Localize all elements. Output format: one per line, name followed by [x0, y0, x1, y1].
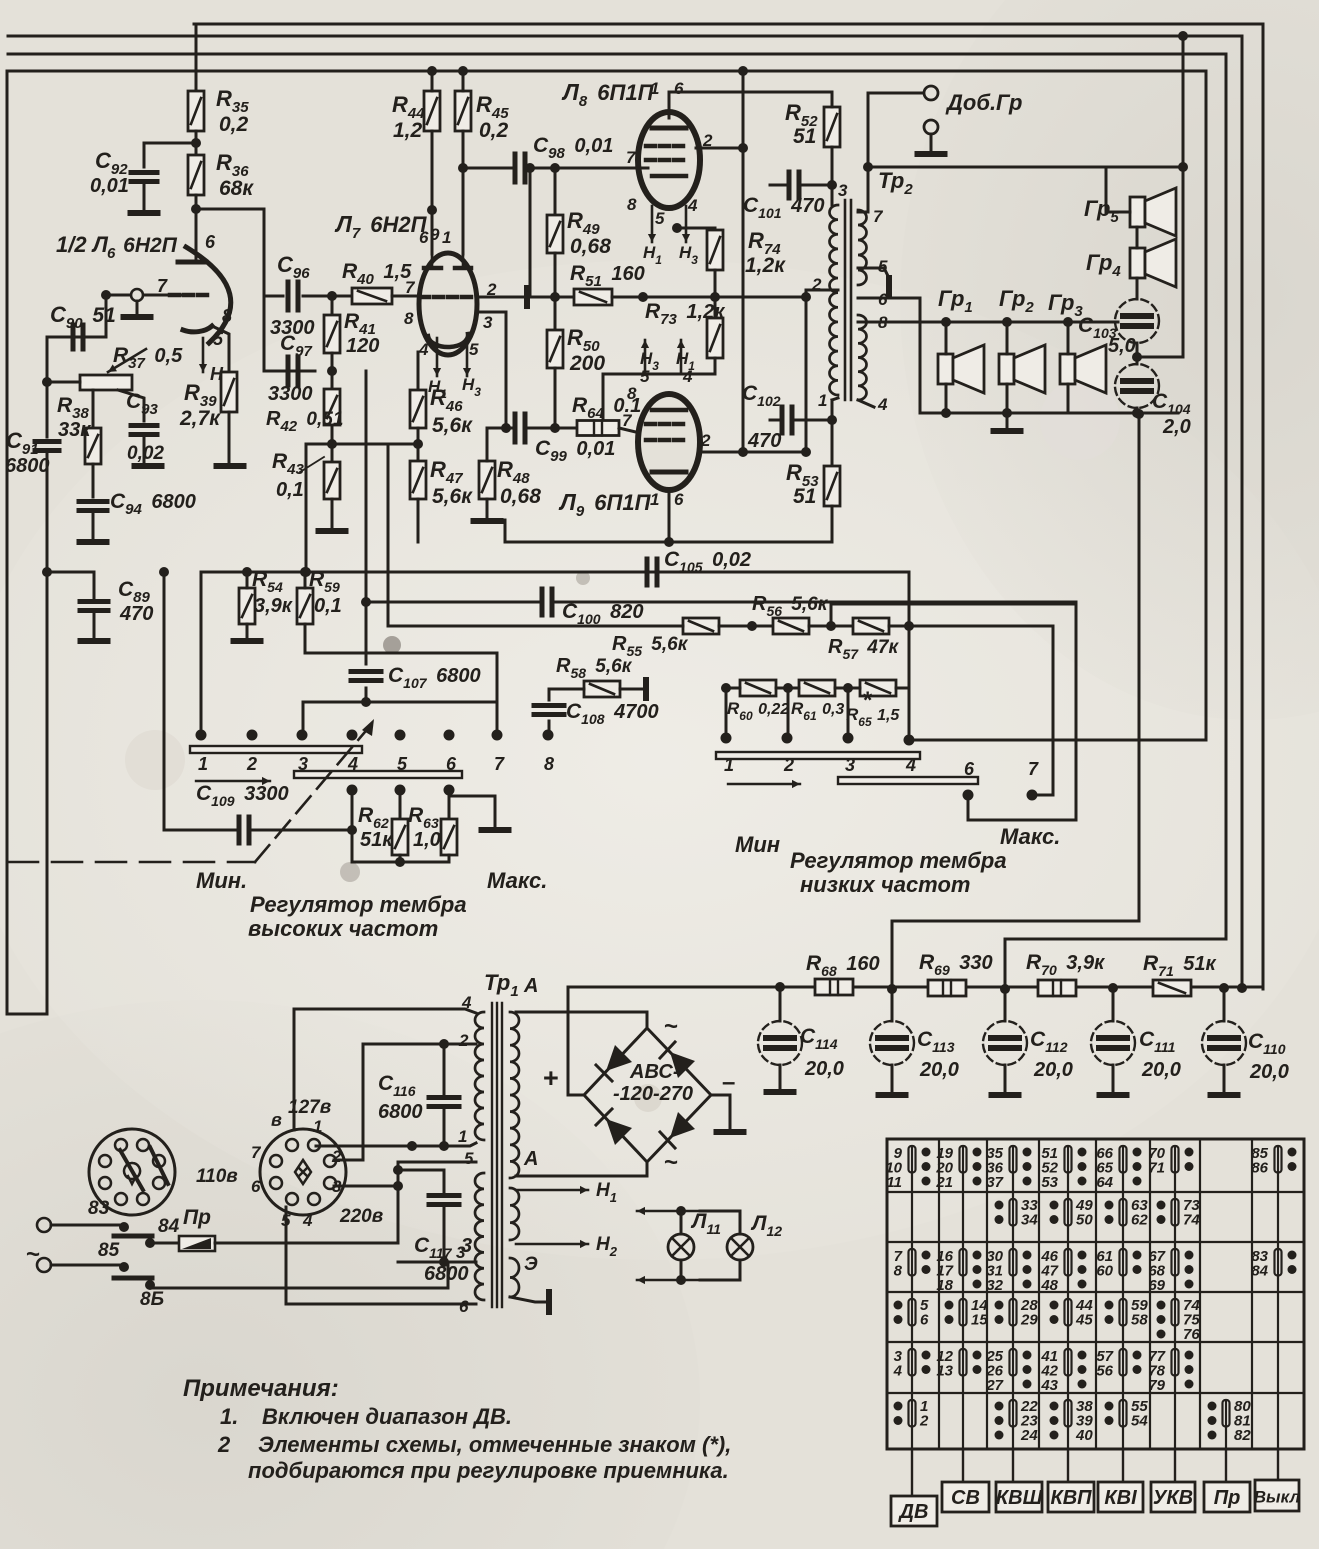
wire Tr2 tap6 to speaker bottom rail [858, 298, 920, 413]
resistor R49 [547, 215, 563, 253]
wire C101 left stub [770, 184, 789, 187]
wire R59 bottom two-level link to contacts 3 and 7 [305, 624, 497, 702]
svg-text:4: 4 [418, 340, 429, 359]
svg-text:1: 1 [650, 79, 659, 98]
resistor R61 [799, 680, 835, 696]
wire R40 to L7 grid [392, 295, 420, 298]
wire bus line 3 [8, 54, 1226, 939]
wire C90 node riser [105, 295, 108, 337]
svg-text:6: 6 [251, 1177, 261, 1196]
svg-text:6: 6 [964, 759, 975, 779]
wire left rail from C90 down [46, 337, 49, 437]
resistor R73 [707, 318, 723, 358]
wire screen supply riser from bus to L9 pin2 [742, 71, 745, 452]
wire R46 top lead [417, 352, 420, 390]
capacitor C94 [79, 502, 107, 511]
svg-text:79: 79 [1148, 1377, 1165, 1394]
resistor R50 [547, 330, 563, 368]
wire tap5 riser [398, 1162, 476, 1243]
tube L6 grid dashes pin 7 [170, 293, 179, 298]
wire contact 6b to ground [449, 796, 495, 826]
unused socket 83 [89, 1129, 175, 1215]
tube U L8 6P1P envelope [638, 112, 700, 208]
svg-text:27: 27 [985, 1377, 1003, 1394]
svg-text:11: 11 [886, 1174, 902, 1191]
svg-text:А: А [523, 975, 538, 997]
terminal circles Dob.Gr [924, 86, 938, 100]
wire C99 line [506, 427, 512, 430]
bass control contacts [721, 733, 732, 744]
switch contacts 25,26,27 [985, 1348, 1031, 1394]
tube L7 anode bars [424, 266, 441, 271]
svg-text:20,0: 20,0 [919, 1059, 959, 1081]
capacitor C110 electrolytic [1223, 988, 1226, 1021]
svg-text:5,0: 5,0 [1108, 335, 1136, 357]
wire R57 right to riser x909 [889, 625, 1053, 628]
wire R52 bottom to C101 node [831, 147, 834, 205]
wire R56 junction riser to y604 loop [831, 604, 1076, 820]
resistor R36 [188, 155, 204, 195]
svg-text:20,0: 20,0 [1249, 1061, 1289, 1083]
wire left riser to contact 1 [200, 572, 203, 735]
resistor R69 [928, 980, 966, 996]
svg-text:120: 120 [346, 335, 379, 357]
wire R49 column [554, 168, 557, 215]
switch 84-85 [51, 1224, 120, 1227]
switch contacts 5,6 [894, 1297, 930, 1329]
treble slider bar 2 [294, 771, 462, 778]
svg-text:КВI: КВI [1104, 1487, 1137, 1509]
capacitor C113 electrolytic [891, 989, 894, 1021]
svg-text:71: 71 [1148, 1160, 1165, 1177]
svg-text:3: 3 [838, 181, 848, 200]
wire bus line 2 [8, 36, 1242, 989]
wire R45 lead down through C98 node to L7 pin 1 [462, 71, 465, 91]
wire R51 line to feedback riser [612, 296, 806, 299]
wire R37 to C93 [118, 390, 144, 421]
wire R36 anode node to C96 column [195, 195, 198, 262]
svg-text:Элементы схемы, отмеченные зна: Элементы схемы, отмеченные знаком (*), [258, 1432, 731, 1457]
svg-text:85: 85 [98, 1240, 120, 1261]
wire bridge plus output riser [568, 987, 584, 1095]
switch contacts 66,65,64 [1096, 1145, 1141, 1191]
wire L8 pin7 input [640, 167, 648, 170]
svg-text:С107 6800: С107 6800 [388, 664, 481, 691]
svg-text:200: 200 [569, 352, 605, 375]
wire R42 node [331, 371, 334, 389]
wire bus line 4 (outer loop via left edge) [7, 71, 1206, 1012]
switch contacts 41,42,43 [1040, 1348, 1086, 1394]
svg-text:58: 58 [1131, 1312, 1148, 1329]
capacitor C107 [351, 672, 381, 681]
resistor R52 [824, 107, 840, 147]
svg-text:470: 470 [119, 603, 153, 625]
pilot lamp L12 [739, 1211, 742, 1234]
svg-text:220в: 220в [339, 1206, 383, 1227]
wire L7 pin3 riser to C99 line [477, 312, 506, 428]
wire R50 bottom to C99 line [554, 368, 557, 428]
switch contacts 73,74 [1157, 1197, 1201, 1229]
svg-text:4: 4 [347, 754, 358, 774]
wire riser x1005 loop [1005, 939, 1226, 989]
pilot lamp L11 [680, 1211, 683, 1234]
ground under lower terminal [930, 134, 933, 150]
tube L9 cathode bar [652, 408, 686, 413]
capacitor C100 [542, 589, 552, 615]
wire tap3 line [398, 1261, 476, 1264]
svg-text:5: 5 [397, 754, 408, 774]
ground bar for winding E [510, 1297, 549, 1302]
svg-text:18: 18 [936, 1277, 953, 1294]
wire contact 4b to R62 R63 bottom rail [347, 785, 358, 796]
svg-text:0,1: 0,1 [314, 595, 342, 617]
transformer Tr1 primary upper [475, 1012, 484, 1140]
capacitor C111 electrolytic [1112, 988, 1115, 1021]
fuse Pr [150, 1242, 179, 1245]
resistor R53 [824, 466, 840, 506]
treble arrow [196, 777, 270, 785]
svg-text:2,7к: 2,7к [179, 407, 221, 430]
svg-text:Э: Э [524, 1254, 538, 1275]
resistor R60 [740, 680, 776, 696]
svg-text:1/2 Л: 1/2 Л [56, 232, 109, 257]
resistor R62 [399, 790, 402, 819]
resistor R38 [85, 428, 101, 464]
heater arrow H2 of L6 [199, 338, 207, 372]
svg-text:3: 3 [298, 754, 308, 774]
ground under C92 [143, 182, 146, 210]
svg-text:0,02: 0,02 [127, 443, 164, 464]
svg-text:6800: 6800 [378, 1101, 423, 1123]
svg-text:0,68: 0,68 [500, 485, 541, 508]
capacitor C102 and wire [806, 419, 832, 422]
capacitor C105 [647, 559, 657, 585]
svg-text:Выкл: Выкл [1254, 1488, 1301, 1507]
switch contacts 61,60 [1096, 1248, 1141, 1280]
capacitor C116 [443, 1044, 446, 1096]
svg-text:4: 4 [687, 196, 698, 215]
treble slider bar 1 [190, 746, 362, 753]
treble control contacts row [196, 730, 207, 741]
svg-text:АВС-: АВС- [629, 1061, 680, 1083]
switch contacts 80,81,82 [1208, 1398, 1252, 1444]
wire riser x909 down to bass line [908, 572, 911, 740]
svg-text:4: 4 [905, 755, 916, 775]
wire R41 column [331, 296, 334, 315]
svg-text:7: 7 [405, 278, 416, 297]
rectifier bridge ABC-120-270 [584, 1028, 711, 1162]
svg-text:Макс.: Макс. [1000, 824, 1060, 849]
switch contacts 85,86 [1251, 1145, 1296, 1177]
capacitor C97 [288, 357, 298, 385]
wire HV top to bridge [516, 1012, 647, 1028]
svg-text:СВ: СВ [951, 1487, 980, 1509]
pilot lamp bottom rail [637, 1276, 700, 1284]
svg-text:высоких частот: высоких частот [248, 916, 438, 941]
capacitor C112 electrolytic [1004, 989, 1007, 1021]
heater arrows H1 H3 of L7 [433, 338, 441, 376]
switch contacts 67,68,69 [1148, 1248, 1193, 1294]
svg-text:Макс.: Макс. [487, 868, 547, 893]
transformer Tr2 secondary winding lower [858, 315, 867, 400]
wire R44 leads [431, 71, 434, 91]
heater arrow H1 from Tr1 [516, 1186, 588, 1194]
svg-text:Пр: Пр [1214, 1487, 1241, 1509]
resistor R39 [221, 372, 237, 412]
svg-text:7: 7 [622, 411, 633, 430]
svg-text:21: 21 [935, 1174, 953, 1191]
wire L8 pin2 screen line [696, 147, 743, 150]
svg-text:43: 43 [1040, 1377, 1058, 1394]
svg-text:–: – [722, 1069, 735, 1096]
svg-text:1.: 1. [220, 1404, 238, 1429]
wire HV bottom to bridge [516, 1162, 647, 1176]
svg-text:Мин.: Мин. [196, 868, 247, 893]
button Выкл [1277, 1449, 1279, 1480]
wire Gr5 branch [1106, 167, 1183, 212]
wire R47 bottom [417, 499, 420, 542]
svg-text:5,6к: 5,6к [432, 414, 473, 437]
switch contacts 74,75,76 [1157, 1297, 1201, 1343]
svg-text:1,0: 1,0 [413, 829, 441, 851]
resistor R43 [324, 462, 340, 499]
button Пр [1225, 1449, 1227, 1482]
svg-text:83: 83 [88, 1198, 110, 1219]
svg-text:110в: 110в [196, 1166, 238, 1187]
svg-text:3: 3 [845, 755, 855, 775]
capacitor C91 in left rail [35, 442, 59, 451]
svg-text:6: 6 [419, 228, 429, 247]
svg-text:53: 53 [1041, 1174, 1058, 1191]
wire feedback riser x1139 from speaker rail [892, 417, 1139, 989]
loudspeaker Gr4 [1130, 239, 1176, 287]
wire fuse to transformer riser [215, 1242, 398, 1245]
transformer Tr2 primary winding [830, 205, 839, 395]
resistor R55 [683, 618, 719, 634]
wire R55 row riser [387, 444, 390, 626]
loudspeaker Gr2 [999, 345, 1045, 393]
resistor R57 [853, 618, 889, 634]
wire Tr2 tap8 speaker top rail [858, 321, 1118, 324]
svg-text:6: 6 [920, 1312, 929, 1329]
svg-text:15: 15 [971, 1312, 988, 1329]
svg-text:Примечания:: Примечания: [183, 1375, 339, 1402]
wire R64 to L9 pin7 [619, 428, 640, 433]
svg-text:8Б: 8Б [140, 1289, 164, 1310]
wire C104 bottom [1136, 408, 1139, 413]
wire R53 bottom to ground line [831, 506, 834, 542]
resistor R46 [410, 390, 426, 428]
svg-text:2: 2 [783, 755, 794, 775]
wire R49 to R51 node [554, 253, 557, 297]
wire R55-R56 [719, 625, 773, 628]
svg-text:2: 2 [458, 1031, 469, 1050]
resistor R44 [424, 91, 440, 131]
svg-text:Регулятор тембра: Регулятор тембра [790, 848, 1007, 873]
resistor R35 [188, 91, 204, 131]
wire Tr2 tap1 to R53 [832, 398, 838, 400]
wire Tr2 tap4 bottom rail [858, 400, 874, 407]
tube L8 cathode bar [652, 174, 686, 179]
voltage selector socket [260, 1129, 346, 1215]
resistor R65 [860, 680, 896, 696]
svg-text:1: 1 [650, 490, 659, 509]
switch contacts 63,62 [1105, 1197, 1149, 1229]
svg-text:51: 51 [793, 485, 816, 508]
svg-text:32: 32 [986, 1277, 1003, 1294]
wire C100 line [366, 601, 540, 604]
switch contacts 57,56 [1096, 1348, 1141, 1380]
svg-text:74: 74 [1183, 1212, 1200, 1229]
switch contacts 51,52,53 [1041, 1145, 1086, 1191]
svg-text:7: 7 [251, 1143, 262, 1162]
heater arrows H1 H3 of L8 [648, 206, 656, 242]
resistor R59 [297, 588, 313, 624]
wire bass droppers to contacts [725, 688, 728, 735]
switch contacts 70,71 [1148, 1145, 1193, 1177]
wire Tr2 tap5 stub [858, 268, 889, 278]
ground under grid terminal [136, 301, 139, 314]
resistor R54 [239, 588, 255, 624]
ground under R48 [486, 499, 489, 517]
svg-text:2: 2 [246, 754, 257, 774]
pilot lamp top rail [637, 1207, 700, 1215]
svg-text:8: 8 [222, 306, 232, 326]
resistor R56 [773, 618, 809, 634]
tube U L6 1/2 6N2P envelope arc [186, 247, 231, 343]
svg-text:64: 64 [1096, 1174, 1113, 1191]
svg-text:76: 76 [1183, 1326, 1200, 1343]
transformer Tr1 heater winding [510, 1188, 519, 1240]
svg-text:8: 8 [404, 309, 414, 328]
wire C109 feed riser [163, 572, 166, 830]
svg-text:470: 470 [747, 430, 781, 452]
tube L6 cathode [183, 326, 212, 332]
svg-text:24: 24 [1020, 1427, 1038, 1444]
switch matrix column wires [911, 1147, 913, 1449]
wire 86 to C117 bottom [150, 1262, 448, 1288]
transformer Tr1 primary lower [475, 1173, 484, 1300]
switch contacts 55,54 [1105, 1398, 1149, 1430]
svg-text:1,2к: 1,2к [745, 254, 786, 277]
svg-text:подбираются при регулировке пр: подбираются при регулировке приемника. [248, 1458, 729, 1483]
resistor R51 [574, 289, 612, 305]
transformer Tr1 secondary HV [510, 1012, 519, 1178]
svg-text:~: ~ [664, 1013, 678, 1040]
svg-text:40: 40 [1075, 1427, 1093, 1444]
svg-text:84: 84 [1251, 1263, 1268, 1280]
button КВП [1067, 1449, 1069, 1482]
capacitor C117 [443, 1170, 446, 1192]
svg-text:69: 69 [1148, 1277, 1165, 1294]
wire L9 pin2 line to transformer tap2 riser [698, 451, 806, 454]
svg-text:низких частот: низких частот [800, 872, 970, 897]
capacitor C101 [789, 172, 799, 198]
svg-text:1: 1 [313, 1117, 322, 1136]
wire bass line to right loop [909, 739, 1206, 742]
capacitor C104 electrolytic [1115, 364, 1159, 408]
tube L8 anode bar [652, 126, 686, 131]
svg-text:2: 2 [217, 1432, 231, 1457]
loudspeaker Gr1 [938, 345, 984, 393]
svg-text:0,68: 0,68 [570, 235, 611, 258]
svg-text:8: 8 [894, 1263, 903, 1280]
svg-text:Мин: Мин [735, 832, 780, 857]
svg-text:56: 56 [1096, 1363, 1113, 1380]
heater arrows H3 H1 of L9 [641, 340, 649, 374]
switch contacts 19,20,21 [935, 1145, 981, 1191]
svg-text:R70 3,9к: R70 3,9к [1026, 951, 1105, 978]
svg-text:ДВ: ДВ [898, 1501, 929, 1523]
wire R37 to R38 [92, 390, 95, 428]
capacitor C108 [534, 706, 564, 715]
svg-text:86: 86 [1251, 1160, 1268, 1177]
bass slider bar 2 [838, 777, 978, 784]
ground under R54 [246, 624, 249, 637]
svg-text:5: 5 [469, 340, 479, 359]
button СВ [962, 1449, 964, 1482]
heater arrow H2 from Tr1 [516, 1240, 588, 1248]
wire bus B+ top line 1 [194, 24, 1263, 989]
tube U L9 6P1P envelope [638, 394, 700, 490]
switch contacts 33,34 [995, 1197, 1039, 1229]
resistor R63 [448, 790, 451, 819]
resistor R47 [410, 461, 426, 499]
tube L7 grid dashes [420, 295, 429, 300]
svg-text:в: в [271, 1110, 282, 1130]
band switch matrix frame [887, 1139, 1304, 1449]
switch contacts 22,23,24 [995, 1398, 1039, 1444]
svg-text:6: 6 [446, 754, 457, 774]
wire left rail below C91 [46, 451, 49, 993]
svg-text:0,01: 0,01 [90, 175, 129, 197]
resistor R42 [324, 389, 340, 425]
svg-text:С108 4700: С108 4700 [566, 700, 659, 727]
svg-text:6: 6 [205, 232, 216, 252]
wire selector pin3 link [334, 1185, 398, 1188]
wire C97 row [331, 353, 334, 371]
switch contacts 9,10,11 [885, 1145, 930, 1191]
svg-text:50: 50 [1076, 1212, 1093, 1229]
switch contacts 3,4 [893, 1348, 931, 1380]
svg-text:13: 13 [936, 1363, 953, 1380]
wire tap4 to selector pin8 [294, 1009, 476, 1130]
mechanical link dashed line [8, 861, 255, 864]
wire Gr5 and C103 feed riser x1183 from bus 2 [1182, 36, 1185, 357]
svg-text:УКВ: УКВ [1153, 1487, 1193, 1509]
svg-text:29: 29 [1020, 1312, 1038, 1329]
switch contacts 77,78,79 [1148, 1348, 1193, 1394]
bass arrow [728, 780, 800, 788]
svg-text:5: 5 [464, 1149, 474, 1168]
resistor R48 [479, 461, 495, 499]
svg-text:68к: 68к [219, 177, 254, 200]
switch contacts 30,31,32 [986, 1248, 1031, 1294]
wire R46-R47 node [417, 428, 420, 461]
transformer Tr1 winding E [510, 1258, 519, 1297]
tube L8 anode lead to R52 line [668, 92, 671, 118]
wire grid line pin7 of L6 [106, 294, 182, 297]
capacitor C90 [73, 325, 83, 349]
svg-text:4: 4 [302, 1211, 313, 1230]
resistor R71 [1153, 980, 1191, 996]
svg-text:62: 62 [1131, 1212, 1148, 1229]
wire tap6 to selector area [286, 1207, 476, 1304]
capacitor C114 electrolytic [779, 987, 782, 1021]
switch contacts 12,13 [936, 1348, 981, 1380]
capacitor C103 electrolytic [1115, 299, 1159, 343]
svg-text:С109 3300: С109 3300 [196, 782, 289, 809]
